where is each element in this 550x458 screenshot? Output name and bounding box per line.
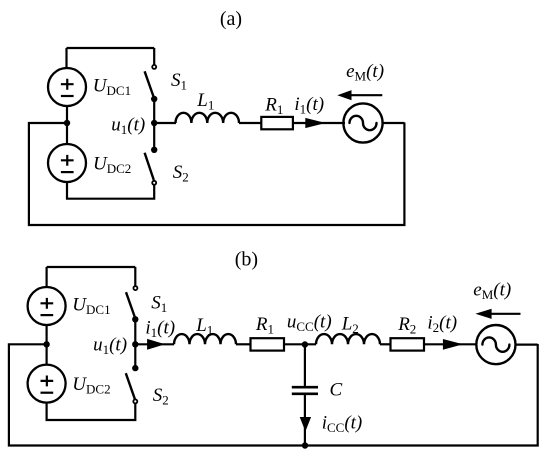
current arrow i2	[443, 339, 463, 350]
wire (a) UDC1 top lead	[65, 48, 67, 69]
wire (b) inductor L2 to resistor R2	[380, 343, 391, 345]
svg-text:i1(t): i1(t)	[145, 318, 175, 341]
wire (a) resistor to source	[293, 122, 345, 124]
node bottom of capacitor branch	[302, 442, 308, 448]
node u1 (b)	[132, 341, 138, 347]
DC source UDC2 (b)	[28, 365, 66, 403]
svg-text:S1: S1	[171, 70, 187, 93]
resistor R2	[391, 338, 425, 350]
svg-text:L1: L1	[196, 90, 214, 113]
wire (a) UDC2 top lead	[66, 123, 68, 145]
wire (a) source to right corner	[383, 122, 405, 124]
switch S2 (b)	[126, 365, 139, 404]
DC source UDC2	[48, 144, 86, 182]
DC source UDC1 (b)	[28, 287, 66, 325]
wire (b) top bus	[47, 266, 136, 268]
svg-text:C: C	[330, 380, 343, 401]
DC source UDC1	[48, 68, 86, 106]
wire (b) resistor R2 to source	[424, 343, 477, 345]
svg-text:L1: L1	[195, 315, 213, 338]
wire (b) UDC2 top lead	[45, 344, 47, 364]
wire (b) switch midline	[134, 319, 136, 368]
wire (a) outer loop left and bottom and right	[29, 123, 405, 226]
wire (b) resistor R1 to node uCC	[284, 343, 316, 345]
wire (b) UDC1 top lead	[45, 267, 47, 288]
reference arrow for eM (b)	[475, 309, 520, 319]
reference arrow for eM (a)	[337, 90, 382, 100]
svg-text:eM(t): eM(t)	[473, 280, 511, 303]
wire (a) top bus	[67, 47, 155, 49]
wire (a) UDC2 bottom lead to bridge bottom	[67, 182, 154, 199]
svg-text:UDC2: UDC2	[72, 374, 110, 397]
switch S1 (a)	[145, 48, 158, 102]
current arrow iCC	[300, 417, 311, 431]
wire (a) switch midline	[153, 99, 155, 150]
switch S1 (b)	[126, 267, 139, 322]
wire (b) source to right corner	[516, 344, 538, 346]
svg-text:UDC1: UDC1	[72, 295, 110, 318]
wire (b) outer loop left and bottom and right	[9, 344, 538, 446]
wire capacitor top lead	[304, 345, 306, 387]
svg-text:iCC(t): iCC(t)	[322, 412, 363, 435]
node junction of sources (a)	[64, 120, 70, 126]
svg-text:i2(t): i2(t)	[427, 313, 457, 336]
inductor L1 (a)	[176, 113, 240, 123]
AC source eM (a)	[343, 103, 382, 142]
node u1 (a)	[151, 120, 157, 126]
svg-text:S2: S2	[153, 385, 169, 408]
node junction of sources (b)	[43, 341, 49, 347]
svg-text:i1(t): i1(t)	[294, 94, 324, 117]
wire (a) node to inductor	[154, 122, 176, 124]
inductor L1 (b)	[174, 334, 236, 344]
wire (b) UDC2 bottom lead to bridge bottom	[47, 403, 136, 420]
capacitor C	[292, 387, 318, 394]
svg-text:(a): (a)	[220, 8, 242, 30]
svg-text:eM(t): eM(t)	[346, 61, 384, 84]
AC source eM (b)	[476, 325, 515, 364]
svg-text:S2: S2	[173, 162, 189, 185]
current arrow i1 (a)	[305, 118, 325, 128]
svg-text:R1: R1	[255, 314, 274, 337]
svg-text:u1(t): u1(t)	[93, 334, 127, 357]
wire (b) UDC1 bottom lead	[45, 325, 47, 344]
svg-text:u1(t): u1(t)	[111, 114, 145, 137]
switch S2 (a)	[145, 147, 158, 185]
svg-text:UDC2: UDC2	[93, 154, 131, 177]
wire (b) node to inductor	[135, 343, 174, 345]
wire capacitor bottom lead	[304, 395, 306, 446]
svg-text:R1: R1	[264, 94, 283, 117]
inductor L2	[316, 334, 380, 344]
svg-text:R2: R2	[397, 314, 416, 337]
current arrow i1 (b)	[147, 339, 165, 350]
wire (b) inductor to resistor R1	[236, 343, 251, 345]
wire (a) UDC1 bottom lead	[66, 106, 68, 123]
svg-text:(b): (b)	[235, 249, 258, 271]
wire (a) inductor to resistor	[239, 122, 261, 124]
resistor R1 (a)	[261, 117, 293, 129]
resistor R1 (b)	[251, 338, 285, 350]
svg-text:uCC(t): uCC(t)	[287, 312, 332, 335]
svg-text:S1: S1	[151, 293, 167, 316]
svg-text:UDC1: UDC1	[93, 75, 131, 98]
svg-text:L2: L2	[341, 314, 359, 337]
node uCC	[302, 341, 308, 347]
